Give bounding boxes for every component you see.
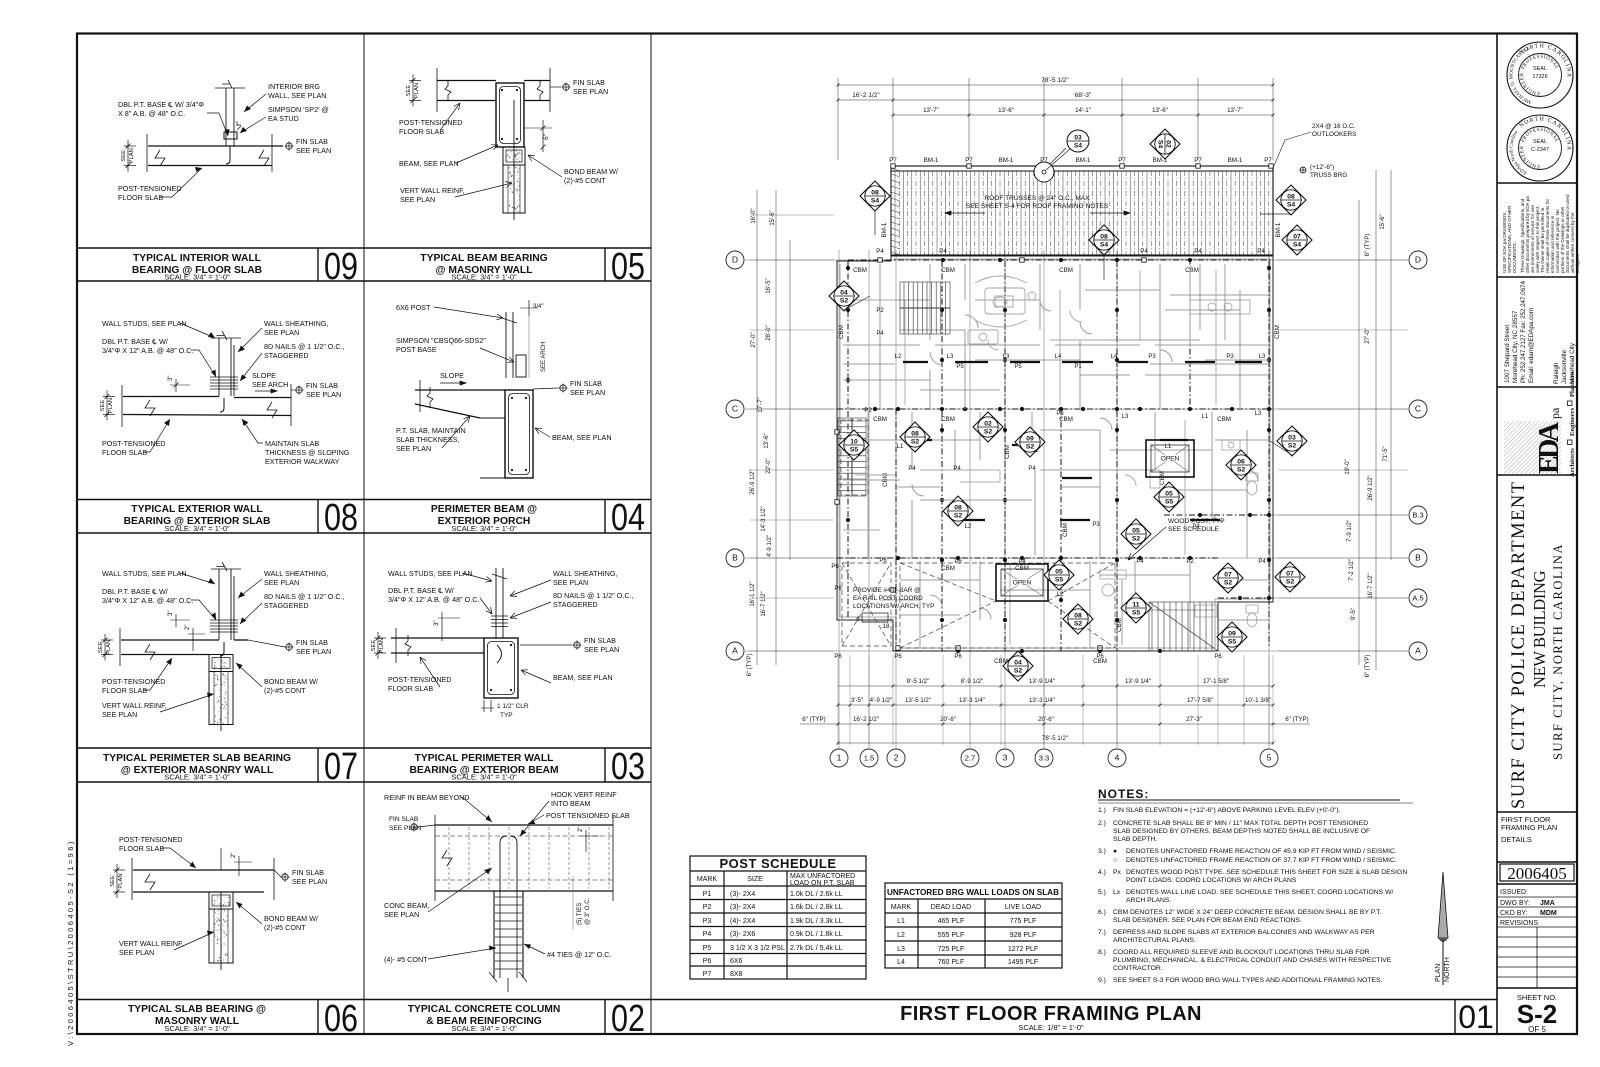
svg-text:08: 08 [1100, 234, 1108, 241]
svg-text:775 PLF: 775 PLF [1010, 918, 1036, 925]
svg-text:3.): 3.) [1098, 848, 1106, 855]
svg-text:SEE SHEET S-3 FOR WOOD BRG WAL: SEE SHEET S-3 FOR WOOD BRG WALL TYPES AN… [1113, 977, 1383, 984]
svg-text:SCALE: 3/4" = 1'-0": SCALE: 3/4" = 1'-0" [451, 524, 517, 533]
svg-text:P5: P5 [956, 364, 964, 370]
svg-text:26'-9 1/2": 26'-9 1/2" [1368, 475, 1374, 500]
svg-text:13'-9 1/4": 13'-9 1/4" [1125, 678, 1151, 685]
svg-text:SEE PLAN: SEE PLAN [389, 825, 421, 832]
svg-text:2.7k DL / 5.4k LL: 2.7k DL / 5.4k LL [790, 945, 843, 952]
svg-text:P7: P7 [889, 157, 897, 164]
svg-text:08: 08 [1287, 194, 1295, 201]
svg-text:S2: S2 [840, 298, 849, 305]
svg-text:03: 03 [1074, 135, 1082, 142]
svg-text:DBL P.T. BASE ℄ W/: DBL P.T. BASE ℄ W/ [388, 586, 454, 595]
svg-text:L4: L4 [897, 959, 905, 966]
svg-text:04: 04 [611, 497, 645, 539]
svg-text:15'-6": 15'-6" [1380, 214, 1386, 229]
svg-text:BM-1: BM-1 [1228, 157, 1243, 164]
svg-text:17'-1 5/8": 17'-1 5/8" [1203, 678, 1229, 685]
svg-text:13'-6": 13'-6" [998, 107, 1014, 114]
svg-text:P7: P7 [703, 971, 712, 978]
svg-text:PLAN: PLAN [1435, 964, 1442, 982]
svg-text:1.0k DL / 2.6k LL: 1.0k DL / 2.6k LL [790, 891, 843, 898]
svg-text:3/4"Φ X 12" A.B. @ 48" O.C.: 3/4"Φ X 12" A.B. @ 48" O.C. [388, 595, 479, 604]
svg-text:09: 09 [324, 246, 358, 288]
svg-text:POST-TENSIONED: POST-TENSIONED [118, 184, 182, 193]
svg-text:4'-9 1/2": 4'-9 1/2" [767, 535, 773, 557]
svg-text:P4: P4 [703, 931, 712, 938]
svg-text:SCALE: 3/4" = 1'-0": SCALE: 3/4" = 1'-0" [164, 1024, 230, 1033]
svg-text:SEE PLAN: SEE PLAN [292, 877, 327, 886]
svg-text:STAGGERED: STAGGERED [264, 351, 309, 360]
svg-text:D: D [732, 255, 738, 265]
svg-text:SEE: SEE [110, 875, 116, 887]
svg-text:SEE PLAN: SEE PLAN [264, 578, 299, 587]
svg-text:MARK: MARK [697, 876, 718, 883]
svg-text:16'-7 1/2": 16'-7 1/2" [761, 591, 767, 616]
svg-text:P3: P3 [1148, 354, 1156, 360]
svg-text:SEE PLAN: SEE PLAN [306, 390, 341, 399]
svg-text:555 PLF: 555 PLF [938, 932, 964, 939]
svg-text:BOND BEAM W/: BOND BEAM W/ [264, 677, 318, 686]
svg-text:4.): 4.) [1098, 869, 1106, 876]
svg-text:WALL, SEE PLAN: WALL, SEE PLAN [268, 91, 326, 100]
svg-text:SLAB DESIGNER. SEE PLAN FOR BE: SLAB DESIGNER. SEE PLAN FOR BEAM END REA… [1113, 917, 1302, 924]
svg-text:SLAB DEPTH.: SLAB DEPTH. [1113, 836, 1157, 843]
svg-text:04: 04 [840, 290, 848, 297]
svg-text:17'-7": 17'-7" [758, 397, 764, 412]
svg-text:B.3: B.3 [1412, 511, 1423, 520]
svg-text:OPEN: OPEN [1013, 580, 1032, 587]
svg-text:28'-0": 28'-0" [766, 325, 772, 340]
svg-text:Jacksonville: Jacksonville [1561, 350, 1568, 384]
svg-text:DENOTES UNFACTORED FRAME REACT: DENOTES UNFACTORED FRAME REACTION OF 37.… [1126, 857, 1397, 864]
svg-text:6" (TYP): 6" (TYP) [1285, 716, 1309, 723]
svg-text:8D NAILS @ 1 1/2" O.C.,: 8D NAILS @ 1 1/2" O.C., [264, 592, 345, 601]
svg-text:CONTRACTOR.: CONTRACTOR. [1113, 965, 1163, 972]
svg-text:P6: P6 [894, 654, 902, 660]
svg-text:L2: L2 [895, 354, 902, 360]
svg-text:FIN SLAB: FIN SLAB [584, 636, 616, 645]
svg-text:PLAN: PLAN [108, 398, 114, 413]
svg-text:P6: P6 [879, 558, 887, 564]
svg-text:CBM: CBM [873, 416, 887, 423]
svg-text:P3: P3 [1056, 411, 1064, 417]
svg-text:SEE PLAN: SEE PLAN [573, 87, 608, 96]
svg-text:78'-5 1/2": 78'-5 1/2" [1042, 735, 1068, 742]
svg-text:P5: P5 [703, 945, 712, 952]
svg-text:3": 3" [168, 376, 174, 381]
svg-text:18: 18 [883, 623, 890, 630]
svg-text:EA STUD: EA STUD [268, 114, 299, 123]
svg-text:OUTLOOKERS: OUTLOOKERS [1312, 131, 1356, 138]
svg-text:CONCRETE SLAB SHALL BE 8" MIN: CONCRETE SLAB SHALL BE 8" MIN / 11" MAX … [1113, 820, 1368, 827]
svg-text:8.): 8.) [1098, 949, 1106, 956]
svg-text:WALL STUDS, SEE PLAN: WALL STUDS, SEE PLAN [102, 319, 187, 328]
svg-text:PROVIDE #4 U-BAR @: PROVIDE #4 U-BAR @ [853, 587, 921, 594]
svg-text:SEE PLAN: SEE PLAN [584, 645, 619, 654]
svg-text:WALL STUDS, SEE PLAN: WALL STUDS, SEE PLAN [388, 569, 473, 578]
svg-text:SEE: SEE [406, 85, 412, 97]
svg-text:13'-7": 13'-7" [1227, 107, 1243, 114]
svg-text:3/4"Φ X 12" A.B. @ 48" O.C.: 3/4"Φ X 12" A.B. @ 48" O.C. [102, 596, 193, 605]
svg-text:NORTH: NORTH [1444, 957, 1451, 982]
svg-text:P7: P7 [1264, 157, 1272, 164]
svg-text:PLAN: PLAN [414, 83, 420, 98]
svg-text:DENOTES WOOD POST TYPE. SEE SC: DENOTES WOOD POST TYPE. SEE SCHEDULE THI… [1126, 869, 1407, 876]
svg-text:ISSUED:: ISSUED: [1500, 889, 1528, 896]
svg-text:SLAB DESIGNED BY OTHERS. BEAM: SLAB DESIGNED BY OTHERS. BEAM DEPTHS NOT… [1113, 828, 1370, 835]
svg-text:16'-5": 16'-5" [766, 278, 772, 293]
svg-text:Morehead City: Morehead City [1569, 342, 1576, 384]
svg-text:BEAM, SEE PLAN: BEAM, SEE PLAN [552, 433, 612, 442]
svg-text:465 PLF: 465 PLF [938, 918, 964, 925]
svg-text:SEE SCHEDULE: SEE SCHEDULE [1168, 526, 1220, 533]
svg-text:CBM: CBM [941, 416, 955, 423]
svg-text:9'-5 1/2": 9'-5 1/2" [907, 678, 930, 685]
svg-text:SCALE: 3/4" = 1'-0": SCALE: 3/4" = 1'-0" [451, 1024, 517, 1033]
svg-text:P6: P6 [1214, 654, 1222, 660]
svg-text:P4: P4 [1028, 466, 1036, 472]
svg-text:SCALE: 3/4" = 1'-0": SCALE: 3/4" = 1'-0" [451, 773, 517, 782]
svg-text:(2)-#5 CONT: (2)-#5 CONT [564, 176, 606, 185]
svg-text:C-2347: C-2347 [1531, 147, 1549, 153]
svg-text:SEE PLAN: SEE PLAN [396, 444, 431, 453]
svg-text:BOND BEAM W/: BOND BEAM W/ [564, 167, 618, 176]
svg-text:FLOOR SLAB: FLOOR SLAB [102, 448, 147, 457]
svg-text:L2: L2 [965, 524, 972, 530]
svg-text:SIZE: SIZE [747, 876, 763, 883]
svg-text:3: 3 [1003, 753, 1008, 763]
svg-text:PLUMBING, MECHANICAL, & ELECTR: PLUMBING, MECHANICAL, & ELECTRICAL CONDU… [1113, 957, 1392, 964]
svg-text:SEE PLAN: SEE PLAN [570, 388, 605, 397]
svg-text:928 PLF: 928 PLF [1010, 932, 1036, 939]
svg-text:02: 02 [1165, 140, 1172, 148]
svg-text:PLAN: PLAN [118, 873, 124, 888]
svg-text:P5: P5 [1014, 364, 1022, 370]
svg-text:P3: P3 [1226, 354, 1234, 360]
svg-text:19'-0": 19'-0" [1345, 459, 1351, 474]
svg-text:TYPICAL INTERIOR WALL: TYPICAL INTERIOR WALL [133, 253, 261, 264]
svg-text:DENOTES UNFACTORED FRAME REACT: DENOTES UNFACTORED FRAME REACTION OF 45.… [1126, 848, 1397, 855]
svg-text:3/4"Φ X 12" A.B. @ 48" O.C.: 3/4"Φ X 12" A.B. @ 48" O.C. [102, 346, 193, 355]
svg-text:(+12'-6"): (+12'-6") [1310, 164, 1334, 171]
svg-text:Raleigh: Raleigh [1553, 362, 1560, 384]
svg-text:FIN SLAB: FIN SLAB [296, 137, 328, 146]
svg-text:13'-3 1/4": 13'-3 1/4" [1029, 697, 1055, 704]
svg-text:2": 2" [578, 827, 584, 832]
svg-text:1 1/2" CLR: 1 1/2" CLR [497, 703, 529, 710]
svg-text:S4: S4 [871, 198, 880, 205]
svg-text:1.9k DL / 3.3k LL: 1.9k DL / 3.3k LL [790, 918, 843, 925]
svg-text:○: ○ [1113, 857, 1117, 864]
svg-text:WALL SHEATHING,: WALL SHEATHING, [553, 569, 617, 578]
svg-text:MARK: MARK [891, 904, 912, 911]
svg-text:FRAMING PLAN: FRAMING PLAN [1501, 823, 1557, 832]
svg-text:P6: P6 [954, 654, 962, 660]
svg-text:760 PLF: 760 PLF [938, 959, 964, 966]
svg-text:●: ● [1113, 848, 1117, 855]
svg-text:FLOOR SLAB: FLOOR SLAB [118, 193, 163, 202]
svg-text:Px: Px [1113, 869, 1122, 876]
svg-text:STAGGERED: STAGGERED [553, 600, 598, 609]
svg-text:S2: S2 [1014, 668, 1023, 675]
svg-text:DBL P.T. BASE ℄ W/ 3/4"Φ: DBL P.T. BASE ℄ W/ 3/4"Φ [118, 100, 204, 109]
svg-text:2X4 @ 16 O.C.: 2X4 @ 16 O.C. [1312, 123, 1356, 130]
svg-text:OPEN: OPEN [1161, 456, 1180, 463]
svg-text:SEE PLAN: SEE PLAN [264, 328, 299, 337]
svg-text:S2: S2 [911, 439, 920, 446]
svg-text:P.T. SLAB, MAINTAIN: P.T. SLAB, MAINTAIN [396, 426, 466, 435]
svg-text:L3: L3 [897, 946, 905, 953]
svg-text:3/4": 3/4" [533, 304, 543, 310]
svg-text:S5: S5 [1228, 639, 1237, 646]
svg-text:8X8: 8X8 [730, 971, 743, 978]
svg-text:SIMPSON 'SP2' @: SIMPSON 'SP2' @ [268, 105, 329, 114]
svg-text:SEE PLAN: SEE PLAN [296, 146, 331, 155]
svg-text:S2: S2 [1286, 579, 1295, 586]
svg-text:1495 PLF: 1495 PLF [1008, 959, 1038, 966]
svg-text:S4: S4 [1074, 143, 1082, 150]
svg-text:TYPICAL BEAM BEARING: TYPICAL BEAM BEARING [420, 253, 547, 264]
svg-text:CBM: CBM [838, 325, 845, 339]
svg-text:P4: P4 [876, 248, 884, 255]
svg-text:9'-5": 9'-5" [1351, 608, 1357, 620]
svg-text:S4: S4 [1157, 140, 1164, 149]
svg-text:CONC BEAM,: CONC BEAM, [384, 901, 430, 910]
svg-text:17326: 17326 [1532, 74, 1547, 80]
svg-text:EXTERIOR WALKWAY: EXTERIOR WALKWAY [265, 457, 340, 466]
svg-text:CBM: CBM [1062, 523, 1069, 537]
svg-text:13'-6": 13'-6" [764, 433, 770, 448]
svg-text:08: 08 [1074, 613, 1082, 620]
svg-text:THICKNESS @ SLOPING: THICKNESS @ SLOPING [265, 448, 350, 457]
svg-text:SCALE: 3/4" = 1'-0": SCALE: 3/4" = 1'-0" [164, 524, 230, 533]
svg-text:S4: S4 [1287, 202, 1296, 209]
svg-text:03: 03 [611, 746, 645, 788]
svg-text:SLOPE: SLOPE [252, 371, 276, 380]
svg-text:02: 02 [984, 421, 992, 428]
svg-text:(3)- 2X4: (3)- 2X4 [730, 904, 755, 911]
svg-text:P7: P7 [1194, 157, 1202, 164]
svg-text:CBM: CBM [1059, 267, 1073, 274]
svg-text:INTO BEAM: INTO BEAM [551, 799, 590, 808]
svg-text:(2)-#5 CONT: (2)-#5 CONT [264, 923, 306, 932]
svg-text:PLAN: PLAN [129, 148, 135, 163]
svg-text:REVISIONS: REVISIONS [1500, 920, 1538, 927]
svg-text:7'-2 1/2": 7'-2 1/2" [1349, 559, 1355, 581]
svg-text:REINF IN BEAM BEYOND: REINF IN BEAM BEYOND [384, 793, 469, 802]
svg-text:VERT WALL REINF,: VERT WALL REINF, [400, 186, 465, 195]
svg-text:SURF CITY POLICE DEPARTMENT: SURF CITY POLICE DEPARTMENT [1509, 481, 1529, 809]
svg-text:S5: S5 [850, 447, 859, 454]
svg-text:LOAD ON P.T. SLAB: LOAD ON P.T. SLAB [790, 880, 855, 887]
svg-text:SEE PLAN: SEE PLAN [119, 948, 154, 957]
svg-text:L3: L3 [1255, 411, 1262, 417]
svg-text:WALL SHEATHING,: WALL SHEATHING, [264, 569, 328, 578]
svg-text:68'-3": 68'-3" [1075, 92, 1092, 99]
svg-text:(4)- #5 CONT: (4)- #5 CONT [384, 955, 428, 964]
svg-text:SIMPSON "CBSQ66-SDS2": SIMPSON "CBSQ66-SDS2" [396, 336, 486, 345]
svg-text:D: D [1415, 255, 1421, 265]
svg-text:06: 06 [1237, 459, 1245, 466]
svg-text:L4: L4 [1111, 354, 1118, 360]
svg-text:FLOOR SLAB: FLOOR SLAB [388, 684, 433, 693]
svg-text:P4: P4 [1140, 248, 1148, 255]
svg-text:05: 05 [1055, 569, 1063, 576]
svg-text:DOCUMENTS:: DOCUMENTS: [1512, 242, 1517, 273]
svg-text:SEAL: SEAL [1533, 139, 1547, 145]
svg-text:07: 07 [324, 746, 358, 788]
svg-text:8D NAILS @ 1 1/2" O.C.,: 8D NAILS @ 1 1/2" O.C., [264, 342, 345, 351]
svg-text:P4: P4 [1258, 559, 1266, 565]
svg-text:TYP: TYP [500, 712, 513, 719]
svg-text:0.9k DL / 1.8k LL: 0.9k DL / 1.8k LL [790, 931, 843, 938]
svg-text:L3: L3 [1003, 354, 1010, 360]
svg-text:L3: L3 [1122, 414, 1129, 420]
svg-text:725 PLF: 725 PLF [938, 946, 964, 953]
svg-text:SEE ARCH: SEE ARCH [541, 342, 547, 372]
svg-text:SEAL: SEAL [1533, 66, 1547, 72]
svg-text:TYPICAL CONCRETE COLUMN: TYPICAL CONCRETE COLUMN [408, 1004, 561, 1015]
svg-text:6X6: 6X6 [730, 958, 743, 965]
svg-text:P3: P3 [703, 918, 712, 925]
svg-text:OF 5: OF 5 [1528, 1025, 1546, 1034]
svg-text:1007 Shepard Street: 1007 Shepard Street [1504, 325, 1511, 383]
svg-text:78'-5 1/2": 78'-5 1/2" [1041, 77, 1069, 84]
svg-text:EDA: EDA [1534, 421, 1565, 474]
svg-text:Designer.: Designer. [1575, 254, 1580, 273]
svg-text:L3: L3 [1259, 354, 1266, 360]
svg-text:Architects: Architects [1569, 448, 1576, 477]
svg-text:P4: P4 [1257, 248, 1265, 255]
svg-text:L1: L1 [1202, 414, 1209, 420]
svg-text:6X6 POST: 6X6 POST [396, 303, 431, 312]
svg-text:SEE PLAN: SEE PLAN [296, 647, 331, 656]
svg-text:P4: P4 [1018, 559, 1026, 565]
svg-text:Email: edam@EDApa.com: Email: edam@EDApa.com [1528, 308, 1535, 383]
svg-text:SEE: SEE [98, 641, 104, 653]
svg-text:FLOOR SLAB: FLOOR SLAB [102, 686, 147, 695]
svg-text:P7: P7 [965, 157, 973, 164]
svg-text:VERT WALL REINF,: VERT WALL REINF, [119, 939, 184, 948]
svg-text:SEE: SEE [121, 150, 127, 162]
svg-text:P2: P2 [1186, 559, 1194, 565]
svg-text:3": 3" [434, 621, 440, 626]
svg-text:CBM: CBM [1004, 445, 1011, 459]
svg-text:#4 TIES @ 12" O.C.: #4 TIES @ 12" O.C. [547, 950, 611, 959]
svg-text:DEPRESS AND SLOPE SLABS AT EXT: DEPRESS AND SLOPE SLABS AT EXTERIOR BALC… [1113, 929, 1375, 936]
svg-text:08: 08 [871, 190, 879, 197]
svg-text:3'-5": 3'-5" [851, 697, 863, 704]
svg-text:16'-7 1/2": 16'-7 1/2" [1368, 573, 1374, 598]
svg-text:09: 09 [1026, 436, 1034, 443]
svg-text:TYPICAL EXTERIOR WALL: TYPICAL EXTERIOR WALL [131, 504, 262, 515]
svg-text:DETAILS: DETAILS [1501, 835, 1532, 844]
svg-text:2.): 2.) [1098, 820, 1106, 827]
svg-text:S2: S2 [954, 513, 963, 520]
svg-text:1272 PLF: 1272 PLF [1008, 946, 1038, 953]
svg-text:6.): 6.) [1098, 909, 1106, 916]
svg-text:S5: S5 [1165, 499, 1174, 506]
svg-text:04: 04 [1014, 660, 1022, 667]
svg-text:(4)- 2X4: (4)- 2X4 [730, 918, 755, 925]
svg-text:DWG BY:: DWG BY: [1500, 900, 1530, 907]
svg-text:BM-1: BM-1 [1275, 222, 1282, 237]
svg-text:B: B [732, 553, 738, 563]
svg-text:07: 07 [1286, 571, 1294, 578]
svg-text:POST TENSIONED SLAB: POST TENSIONED SLAB [546, 811, 630, 820]
svg-text:Lx: Lx [1113, 889, 1121, 896]
svg-text:SEE: SEE [371, 640, 377, 652]
svg-text:@ 3" O.C.: @ 3" O.C. [585, 897, 591, 925]
svg-text:27'-0": 27'-0" [1365, 328, 1371, 343]
svg-text:P2: P2 [864, 408, 872, 414]
svg-text:22'-0": 22'-0" [766, 458, 772, 473]
svg-text:FIN SLAB: FIN SLAB [292, 868, 324, 877]
svg-text:S2: S2 [1074, 621, 1083, 628]
svg-text:(5) TIES: (5) TIES [577, 903, 583, 925]
svg-text:10'-1 3/8": 10'-1 3/8" [1245, 697, 1271, 704]
svg-text:3": 3" [168, 611, 174, 616]
svg-text:SEE PLAN: SEE PLAN [384, 910, 419, 919]
svg-text:P4: P4 [1136, 559, 1144, 565]
svg-text:03: 03 [1288, 435, 1296, 442]
svg-text:L3: L3 [947, 354, 954, 360]
svg-text:07: 07 [1293, 234, 1301, 241]
svg-text:NOTES:: NOTES: [1098, 787, 1149, 801]
svg-text:PLAN: PLAN [379, 638, 385, 653]
svg-text:8D NAILS @ 1 1/2" O.C.,: 8D NAILS @ 1 1/2" O.C., [553, 591, 634, 600]
svg-text:EA RAIL POST, COORD: EA RAIL POST, COORD [853, 595, 923, 602]
svg-text:27'-3": 27'-3" [1186, 716, 1202, 723]
svg-text:SEE PLAN: SEE PLAN [400, 195, 435, 204]
svg-text:Ph: 252.247.2127 Fax: 252.24: Ph: 252.247.2127 Fax: 252.247.0674 [1520, 281, 1527, 383]
svg-text:TRUSS BRG: TRUSS BRG [1310, 172, 1347, 179]
svg-text:02: 02 [611, 998, 645, 1040]
svg-text:BM-1: BM-1 [881, 222, 888, 237]
svg-text:P2: P2 [876, 308, 884, 314]
svg-text:14'-1": 14'-1" [1075, 107, 1091, 114]
svg-text:FIN SLAB: FIN SLAB [389, 816, 419, 823]
svg-text:2": 2" [231, 853, 237, 858]
svg-text:13'-9 1/4": 13'-9 1/4" [1029, 678, 1055, 685]
svg-text:S2: S2 [1132, 536, 1141, 543]
svg-text:JMA: JMA [1540, 900, 1555, 907]
svg-text:C: C [732, 404, 738, 414]
svg-text:CKD BY:: CKD BY: [1500, 910, 1528, 917]
svg-text:S2: S2 [1288, 443, 1297, 450]
svg-text:FIN SLAB ELEVATION = (+12'-6"): FIN SLAB ELEVATION = (+12'-6") ABOVE PAR… [1113, 807, 1341, 814]
svg-text:FIRST FLOOR FRAMING PLAN: FIRST FLOOR FRAMING PLAN [900, 1003, 1202, 1025]
svg-text:MAINTAIN SLAB: MAINTAIN SLAB [265, 439, 319, 448]
svg-text:POST-TENSIONED: POST-TENSIONED [399, 118, 463, 127]
svg-text:SURF CITY, NORTH CAROLINA: SURF CITY, NORTH CAROLINA [1551, 544, 1565, 760]
svg-text:FIN SLAB: FIN SLAB [570, 379, 602, 388]
svg-text:07: 07 [1224, 572, 1232, 579]
svg-text:BM-1: BM-1 [1076, 157, 1091, 164]
svg-text:SEE ARCH: SEE ARCH [252, 380, 288, 389]
svg-text:P7: P7 [1118, 157, 1126, 164]
svg-text:5: 5 [1267, 753, 1272, 763]
svg-text:LOCATIONS W/ ARCH, TYP: LOCATIONS W/ ARCH, TYP [853, 603, 934, 610]
svg-text:PERIMETER BEAM @: PERIMETER BEAM @ [431, 504, 537, 515]
svg-text:08: 08 [324, 497, 358, 539]
svg-text:P6: P6 [831, 564, 839, 570]
svg-text:VERT WALL REINF,: VERT WALL REINF, [102, 701, 167, 710]
svg-text:6" (TYP): 6" (TYP) [802, 716, 826, 723]
svg-text:SCALE: 3/4" = 1'-0": SCALE: 3/4" = 1'-0" [451, 273, 517, 282]
